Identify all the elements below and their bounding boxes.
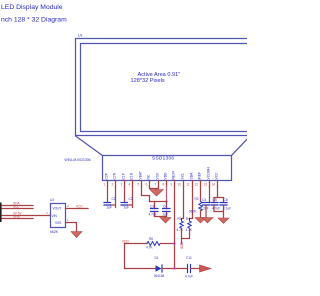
ground arrow (C4) <box>202 218 213 224</box>
wire GND <box>2 218 33 220</box>
wire R2 to ground <box>200 211 202 218</box>
svg-text:7: 7 <box>155 183 157 187</box>
capacitor C1 <box>104 203 111 206</box>
wire pin11 to R4 <box>190 187 193 219</box>
ground arrow (R2) <box>195 218 206 224</box>
svg-text:2: 2 <box>67 204 69 208</box>
svg-text:VCC: VCC <box>76 205 83 209</box>
svg-text:4.7K: 4.7K <box>146 246 153 250</box>
svg-text:9: 9 <box>171 183 173 187</box>
svg-text:1: 1 <box>67 218 69 222</box>
svg-text:VIN: VIN <box>52 214 58 218</box>
svg-text:C1N: C1N <box>130 172 134 179</box>
wire R6 to pin9 wire <box>160 243 174 245</box>
svg-text:1uF: 1uF <box>124 206 130 210</box>
svg-text:C5: C5 <box>213 198 217 202</box>
svg-text:14: 14 <box>212 183 216 187</box>
ground arrow (VBAT caps) <box>160 218 171 224</box>
wire VBAT rail <box>150 201 167 203</box>
svg-text:128*32 Pixels: 128*32 Pixels <box>131 78 165 84</box>
svg-text:10: 10 <box>178 183 182 187</box>
wire pin12 to R2 <box>200 187 202 202</box>
wire pins 6,7 to ground <box>150 187 159 190</box>
diode D1 <box>156 265 162 272</box>
svg-text:C6: C6 <box>224 198 228 202</box>
capacitor C4a <box>166 202 168 217</box>
wire pin3 to C2 <box>124 187 126 203</box>
svg-text:3: 3 <box>46 211 48 215</box>
wire VIN <box>2 215 51 217</box>
svg-text:4: 4 <box>129 183 131 187</box>
pin stubs 1-14 <box>108 181 218 187</box>
svg-text:2: 2 <box>112 183 114 187</box>
svg-text:LED Display Module: LED Display Module <box>1 4 63 11</box>
wire pin4 to C2 <box>128 187 133 208</box>
svg-text:C2: C2 <box>129 197 133 201</box>
wire C5/C6 to ground <box>214 205 224 218</box>
pin labels (vertical) <box>105 167 219 180</box>
wire to diode <box>125 268 156 270</box>
glass-to-FPC right slant <box>232 136 251 156</box>
svg-text:662K: 662K <box>50 230 59 234</box>
wire VOUT <box>66 208 89 210</box>
junction pin8/VBAT rail <box>166 201 168 203</box>
ground arrow (VCC caps) <box>218 218 229 224</box>
svg-text:VDD: VDD <box>180 243 184 250</box>
svg-text:4.7K: 4.7K <box>177 228 184 232</box>
svg-text:VSS: VSS <box>55 221 61 225</box>
svg-text:RES#: RES# <box>172 171 176 180</box>
capacitor C6 <box>220 203 227 206</box>
svg-text:VOUT: VOUT <box>53 207 62 211</box>
svg-text:C1: C1 <box>112 197 116 201</box>
wire C4 to ground <box>205 205 207 218</box>
wire VSS to ground <box>66 223 77 232</box>
svg-text:VCC: VCC <box>215 172 219 180</box>
svg-text:C2P: C2P <box>105 172 109 179</box>
capacitor C2 <box>121 203 128 206</box>
svg-text:VDD: VDD <box>164 172 168 180</box>
svg-text:4.7uF: 4.7uF <box>149 212 157 216</box>
svg-text:560K: 560K <box>189 209 197 213</box>
svg-text:VCOMH: VCOMH <box>207 167 211 180</box>
junction pullup rail to VDD wire <box>181 243 183 245</box>
resistor R2 <box>199 202 202 211</box>
wire caps to ground <box>155 217 166 218</box>
svg-text:SDA: SDA <box>190 172 194 180</box>
svg-text:2.2uF: 2.2uF <box>201 206 209 210</box>
junction diode/pin9 <box>174 268 176 270</box>
wire pin1 to C1 <box>107 187 109 203</box>
wire pin2 to C1 <box>111 187 116 208</box>
svg-text:4.7uF: 4.7uF <box>185 275 193 279</box>
svg-text:WEA-M-0021306: WEA-M-0021306 <box>65 158 91 162</box>
svg-text:1uF: 1uF <box>163 212 169 216</box>
svg-text:C3: C3 <box>150 205 154 209</box>
svg-text:C11: C11 <box>186 256 192 260</box>
svg-text:IN4148: IN4148 <box>154 274 165 278</box>
glass-to-FPC left slant <box>76 136 103 156</box>
svg-text:NC: NC <box>147 174 151 179</box>
svg-text:C4: C4 <box>202 198 206 202</box>
svg-text:IREF: IREF <box>198 172 202 180</box>
svg-text:R4: R4 <box>186 217 190 221</box>
svg-text:SCL: SCL <box>181 173 185 180</box>
svg-text:SCL: SCL <box>13 205 19 209</box>
display outer outline <box>76 39 253 136</box>
resistor R3 <box>180 219 183 229</box>
net arrow (VCC out) <box>200 265 212 272</box>
svg-text:12: 12 <box>195 183 199 187</box>
svg-text:VSS: VSS <box>156 172 160 179</box>
svg-text:U1: U1 <box>78 34 83 38</box>
wire SCL <box>2 208 33 210</box>
ground arrow (pins 6,7) <box>150 190 164 197</box>
wire pin13 to C4 <box>209 187 211 203</box>
capacitor C5 <box>211 203 218 206</box>
wire pin10 to R3 <box>182 187 184 219</box>
capacitor C3 <box>154 202 156 217</box>
capacitor C4 (VCOMH) <box>203 203 210 206</box>
wire pin9 long vertical <box>174 187 176 269</box>
svg-text:D1: D1 <box>155 256 159 260</box>
regulator U2 <box>51 204 66 228</box>
svg-text:0.1uF: 0.1uF <box>223 206 231 210</box>
pin numbers <box>104 183 216 187</box>
svg-text:8: 8 <box>163 183 165 187</box>
svg-text:R3: R3 <box>178 217 182 221</box>
wire SDA <box>2 205 33 207</box>
wire pin5 VBAT down <box>142 187 150 202</box>
svg-text:5: 5 <box>138 183 140 187</box>
svg-text:GND: GND <box>13 215 21 219</box>
svg-text:13: 13 <box>204 183 208 187</box>
driver IC block (connector) <box>103 156 232 181</box>
svg-text:C1P: C1P <box>122 172 126 179</box>
svg-text:R2: R2 <box>195 197 199 201</box>
svg-text:SSD1306: SSD1306 <box>152 156 174 162</box>
wire C11 to arrow <box>191 268 200 270</box>
resistor R6 <box>147 242 160 246</box>
svg-text:4.7uF: 4.7uF <box>212 206 220 210</box>
svg-text:VBAT: VBAT <box>139 171 143 179</box>
ground arrow (U2) <box>71 232 82 238</box>
wire diode to junction <box>163 268 188 270</box>
capacitor C11 <box>188 265 191 273</box>
svg-text:3: 3 <box>121 183 123 187</box>
svg-text:C4: C4 <box>163 205 167 209</box>
wire pin8 VDD down <box>166 187 168 202</box>
svg-text:11: 11 <box>187 183 191 187</box>
resistor R4 <box>188 219 191 229</box>
svg-text:C2N: C2N <box>113 172 117 179</box>
wire VDD loop left <box>124 244 126 269</box>
display inner outline (active area) <box>81 44 258 132</box>
svg-text:1uF: 1uF <box>107 206 113 210</box>
svg-text:R6: R6 <box>149 237 153 241</box>
junction R6/pin9 <box>174 243 176 245</box>
svg-text:6: 6 <box>146 183 148 187</box>
input header (cropped) <box>0 203 2 223</box>
svg-text:nch 128 * 32 Diagram: nch 128 * 32 Diagram <box>1 17 67 24</box>
wire pin14 VCC down <box>214 187 224 203</box>
wire VDD rail <box>125 243 148 245</box>
wire R3/R4 bottoms join <box>182 229 190 244</box>
svg-text:U2: U2 <box>50 198 54 202</box>
svg-text:1: 1 <box>104 183 106 187</box>
